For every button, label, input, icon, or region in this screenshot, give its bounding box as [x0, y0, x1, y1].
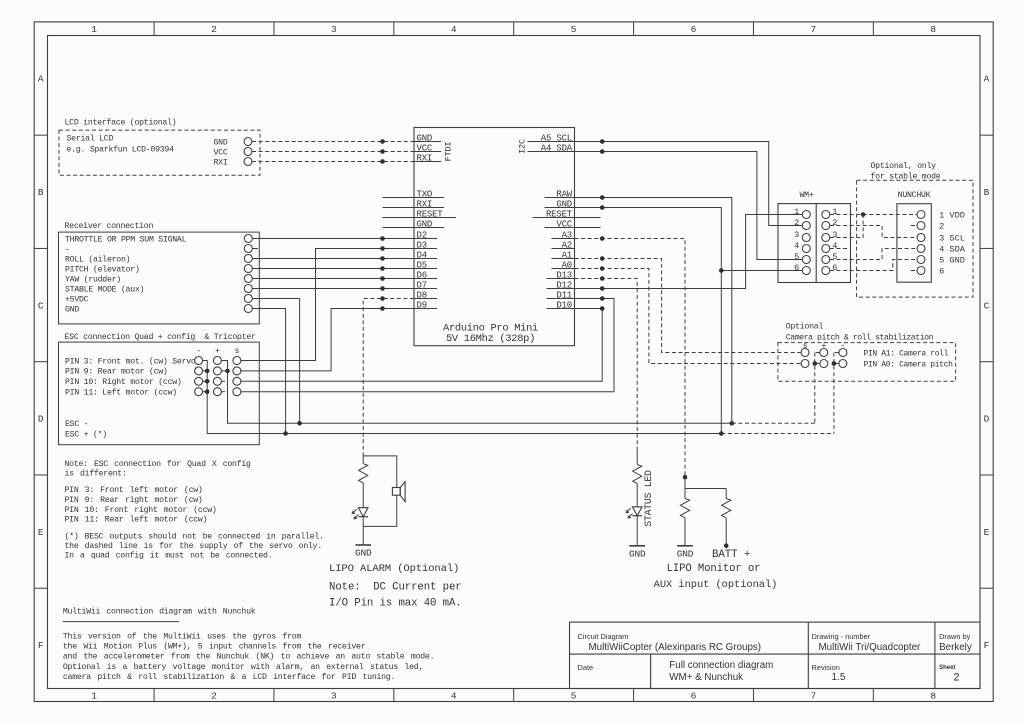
svg-text:A: A [984, 74, 990, 85]
LED D1 STATUS [625, 484, 642, 546]
svg-text:D4: D4 [417, 250, 427, 260]
svg-text:8: 8 [930, 24, 936, 35]
node A3 lipo monitor junction [683, 475, 727, 499]
svg-text:E: E [984, 527, 990, 538]
wire A4 SDA to WM+ pin L5 [575, 149, 803, 259]
svg-text:2: 2 [954, 672, 960, 684]
svg-text:VCC: VCC [417, 143, 433, 153]
speaker LS1 [363, 456, 405, 527]
svg-text:D5: D5 [417, 260, 427, 270]
svg-text:C: C [38, 300, 44, 311]
label lipo monitor [654, 563, 778, 591]
svg-text:Drawn by: Drawn by [939, 632, 971, 641]
svg-text:GND: GND [355, 548, 372, 559]
svg-text:RXI: RXI [214, 158, 228, 167]
svg-text:2: 2 [211, 691, 217, 702]
wire LCD VCC to Arduino VCC (dashed) [252, 149, 414, 154]
wire STABLE MODE to D7 [252, 286, 414, 291]
svg-text:C: C [984, 300, 990, 311]
svg-text:In a quad config it must not b: In a quad config it must not be connecte… [65, 551, 273, 561]
svg-text:FTDI: FTDI [443, 142, 453, 162]
svg-text:GND: GND [629, 548, 646, 559]
svg-text:MultiWii connection diagram wi: MultiWii connection diagram with Nunchuk [63, 606, 256, 616]
wire ESC plus column to ESC- rail [221, 361, 734, 426]
svg-text:Serial LCD: Serial LCD [67, 134, 114, 144]
svg-text:ESC connection Quad + config: ESC connection Quad + config & Tricopter [65, 332, 257, 342]
svg-text:RESET: RESET [417, 209, 444, 219]
wire receiver +5VDC down to ESC minus rail [252, 299, 299, 424]
svg-text:ROLL (aileron): ROLL (aileron) [65, 254, 130, 264]
svg-text:PIN A0: Camera pitch: PIN A0: Camera pitch [864, 361, 954, 370]
svg-text:3 SCL: 3 SCL [939, 234, 965, 244]
svg-text:D13: D13 [556, 270, 572, 280]
svg-text:s: s [235, 347, 240, 356]
svg-text:7: 7 [811, 691, 817, 702]
svg-text:-: - [841, 341, 846, 351]
svg-text:Optional: Optional [786, 322, 824, 332]
title block [570, 622, 981, 688]
svg-text:PIN 9: Rear motor (cw): PIN 9: Rear motor (cw) [65, 367, 168, 377]
svg-text:PIN 10: Right motor (ccw): PIN 10: Right motor (ccw) [65, 377, 182, 387]
svg-text:1: 1 [91, 24, 97, 35]
label STATUS LED [643, 470, 654, 527]
svg-text:5: 5 [571, 691, 577, 702]
svg-text:D12: D12 [556, 280, 572, 290]
svg-text:A: A [38, 74, 44, 85]
LCD serial interface connector J1 [59, 118, 260, 176]
wire THROTTLE to D2 [252, 236, 414, 241]
stub Arduino TXO/RXI/RESET/GND left (n.c.) [383, 198, 415, 228]
camera stabilization optional dashed box [778, 322, 956, 382]
wire YAW to D6 [252, 276, 414, 281]
svg-text:RXI: RXI [417, 153, 433, 163]
svg-text:THROTTLE OR PPM SUM SIGNAL: THROTTLE OR PPM SUM SIGNAL [65, 235, 187, 244]
svg-text:3: 3 [794, 230, 799, 240]
wire Arduino GND to WM+ L6 and ESC+ rail [575, 205, 803, 433]
note text MultiWii description [63, 606, 434, 682]
note text ESC quad X [65, 459, 324, 561]
wire camera - rail to ESC+ rail (dashed) [721, 353, 839, 434]
node BATT+ [712, 543, 750, 561]
svg-text:F: F [38, 640, 44, 651]
wire LCD GND to Arduino GND (dashed) [252, 139, 414, 144]
wire ESC minus column to ESC+ rail [203, 361, 724, 436]
svg-text:ESC + (*): ESC + (*) [65, 430, 107, 440]
svg-text:Drawing - number: Drawing - number [812, 632, 871, 641]
svg-text:6: 6 [691, 24, 697, 35]
wire ESC pin3 servo signal to Arduino D3 [241, 246, 414, 360]
svg-text:NUNCHUK: NUNCHUK [898, 191, 931, 200]
svg-text:5 GND: 5 GND [939, 256, 965, 266]
svg-text:5: 5 [571, 24, 577, 35]
svg-text:LIPO ALARM (Optional): LIPO ALARM (Optional) [329, 563, 459, 575]
wire PITCH to D5 [252, 266, 414, 271]
svg-text:YAW (rudder): YAW (rudder) [65, 274, 121, 284]
wire A3 to LIPO monitor (dashed) [575, 236, 686, 477]
svg-text:1: 1 [91, 691, 97, 702]
wire WM+ R6 to NUNCHUK GND (dashed) [830, 260, 917, 271]
wire A0 to camera pitch servo (dashed) [575, 266, 802, 363]
receiver connector J2 [59, 221, 260, 324]
svg-text:I/O Pin is max 40 mA.: I/O Pin is max 40 mA. [329, 598, 462, 610]
ground lipo monitor [677, 546, 694, 560]
svg-text:1: 1 [794, 207, 799, 217]
svg-text:D: D [38, 414, 44, 425]
svg-text:8: 8 [930, 691, 936, 702]
svg-text:D9: D9 [417, 300, 427, 310]
svg-text:4: 4 [832, 241, 837, 251]
svg-text:+: + [821, 341, 826, 351]
svg-text:A1: A1 [562, 250, 572, 260]
svg-text:GND: GND [417, 133, 433, 143]
svg-text:This version of the MultiWii u: This version of the MultiWii uses the gy… [63, 631, 302, 641]
svg-text:PITCH (elevator): PITCH (elevator) [65, 264, 140, 274]
svg-text:VCC: VCC [214, 148, 228, 157]
svg-text:camera pitch & roll stabilizat: camera pitch & roll stabilization & a LC… [63, 672, 395, 682]
svg-text:Date: Date [578, 663, 594, 672]
wire D12 to WM+ pin L1 [575, 215, 803, 291]
svg-text:F: F [984, 640, 990, 651]
svg-text:RESET: RESET [546, 209, 573, 219]
svg-text:D: D [984, 414, 990, 425]
svg-text:AUX input (optional): AUX input (optional) [654, 579, 778, 591]
svg-text:Note: DC Current per: Note: DC Current per [329, 582, 462, 594]
svg-text:LIPO Monitor or: LIPO Monitor or [667, 563, 761, 575]
svg-text:5: 5 [794, 252, 799, 262]
ground status LED [629, 546, 646, 560]
svg-text:D8: D8 [417, 290, 427, 300]
svg-text:E: E [38, 527, 44, 538]
svg-text:4 SDA: 4 SDA [939, 245, 966, 255]
stub WM+ R4 (n.c.) [830, 248, 848, 250]
svg-text:B: B [984, 187, 990, 198]
svg-text:A2: A2 [562, 240, 572, 250]
svg-text:GND: GND [65, 305, 79, 314]
svg-text:6: 6 [794, 263, 799, 273]
svg-text:PIN 11: Left motor (ccw): PIN 11: Left motor (ccw) [65, 388, 177, 398]
wire A1 to camera roll servo (dashed) [575, 256, 802, 352]
resistor R2 (lipo alarm) [359, 453, 368, 483]
wire WM+ R1 to NUNCHUK VDD (dashed) [830, 212, 917, 217]
svg-text:6: 6 [939, 267, 944, 277]
wire camera + rail to ESC- rail (dashed) [732, 353, 820, 424]
svg-text:4: 4 [794, 241, 799, 251]
svg-text:GND: GND [417, 219, 433, 229]
wire A5 SCL to WM+ pin L2 [575, 139, 803, 225]
svg-text:B: B [38, 187, 44, 198]
svg-text:MultiWiiCopter (Alexinparis RC: MultiWiiCopter (Alexinparis RC Groups) [589, 642, 762, 653]
svg-text:2: 2 [794, 218, 799, 228]
svg-text:A5 SCL: A5 SCL [541, 133, 572, 143]
label lipo alarm [329, 563, 462, 610]
svg-text:+5VDC: +5VDC [65, 295, 89, 304]
svg-text:WM+: WM+ [800, 191, 814, 200]
svg-text:6: 6 [691, 691, 697, 702]
svg-text:(*) BESC outputs should not be: (*) BESC outputs should not be connected… [65, 531, 324, 541]
wire D8 to LIPO alarm (dashed) [363, 296, 414, 453]
wire ROLL to D4 [252, 256, 414, 261]
svg-text:2: 2 [939, 222, 944, 232]
svg-text:PIN 11: Rear left motor (ccw): PIN 11: Rear left motor (ccw) [65, 515, 208, 525]
wire ESC pin11 signal to Arduino D11 [241, 296, 614, 392]
resistor R4 (lipo monitor to BATT+) [722, 499, 731, 546]
svg-text:1.5: 1.5 [832, 672, 846, 683]
svg-text:2: 2 [832, 218, 837, 228]
svg-text:D11: D11 [556, 290, 572, 300]
svg-text:7: 7 [811, 24, 817, 35]
svg-text:STATUS LED: STATUS LED [643, 470, 654, 527]
svg-text:2: 2 [211, 24, 217, 35]
svg-text:-: - [65, 245, 70, 254]
svg-text:and the accelerometer from the: and the accelerometer from the Nunchuk (… [63, 652, 434, 662]
resistor R1 (status LED) [633, 450, 642, 484]
LED D2 (lipo alarm) [351, 483, 368, 545]
ground lipo alarm [355, 545, 372, 559]
ESC connector block J3 [59, 332, 260, 445]
svg-text:the Wii Motion Plus (WM+), 5 i: the Wii Motion Plus (WM+), 5 input chann… [63, 642, 366, 652]
svg-text:+: + [215, 347, 220, 356]
svg-text:e.g. Sparkfun LCD-09394: e.g. Sparkfun LCD-09394 [67, 145, 175, 155]
svg-text:BATT +: BATT + [712, 549, 750, 561]
svg-text:Camera pitch & roll stabilizat: Camera pitch & roll stabilization [786, 333, 934, 343]
svg-text:MultiWii Tri/Quadcopter: MultiWii Tri/Quadcopter [819, 642, 922, 653]
svg-text:Optional, only: Optional, only [871, 161, 937, 171]
svg-text:PIN A1: Camera roll: PIN A1: Camera roll [864, 350, 949, 359]
svg-text:PIN 3: Front mot. (cw) Servo: PIN 3: Front mot. (cw) Servo [65, 356, 196, 366]
WM+ connector J4 [778, 191, 851, 282]
svg-text:LCD interface (optional): LCD interface (optional) [65, 118, 177, 128]
svg-text:3: 3 [331, 691, 337, 702]
svg-text:Note: ESC connection for Quad: Note: ESC connection for Quad X config [65, 459, 252, 469]
svg-text:WM+ & Nunchuk: WM+ & Nunchuk [669, 672, 743, 683]
svg-text:5: 5 [832, 252, 837, 262]
svg-text:5V 16Mhz (328p): 5V 16Mhz (328p) [446, 333, 535, 345]
svg-text:I2C: I2C [517, 139, 527, 154]
svg-text:is different:: is different: [65, 469, 127, 479]
stub ESC plus rows 3-4 (n.c.) [221, 381, 225, 391]
svg-text:Revision: Revision [812, 663, 840, 672]
svg-text:Circuit Diagram: Circuit Diagram [578, 632, 629, 641]
stub NUNCHUK pin2 / pin6 (n.c.) [911, 226, 917, 271]
wire LCD RXI to Arduino RXI (dashed) [252, 159, 414, 164]
svg-text:the dashed line is for the sup: the dashed line is for the supply of the… [65, 541, 323, 551]
junction dots ESC rails from receiver [283, 421, 302, 436]
svg-text:1 VDD: 1 VDD [939, 211, 965, 221]
svg-text:Berkely: Berkely [939, 642, 972, 653]
svg-text:D6: D6 [417, 270, 427, 280]
svg-text:1: 1 [832, 207, 837, 217]
svg-text:D2: D2 [417, 230, 427, 240]
stub receiver pin 2 (n.c.) [252, 248, 258, 250]
NUNCHUK connector J5 [897, 191, 966, 282]
svg-text:GND: GND [214, 138, 228, 147]
svg-text:GND: GND [556, 199, 572, 209]
svg-text:GND: GND [677, 548, 694, 559]
svg-text:D10: D10 [556, 300, 572, 310]
svg-text:PIN 3: Front left motor (cw): PIN 3: Front left motor (cw) [65, 485, 203, 495]
svg-text:Receiver connection: Receiver connection [65, 221, 154, 231]
svg-text:PIN 10: Front right motor (ccw: PIN 10: Front right motor (ccw) [65, 505, 217, 515]
svg-text:ESC -: ESC - [65, 420, 88, 429]
resistor R3 (lipo monitor to GND) [680, 499, 689, 546]
wire RAW to ESC- rail [575, 195, 732, 423]
svg-text:Sheet: Sheet [939, 665, 955, 671]
svg-text:RAW: RAW [556, 189, 572, 199]
svg-text:D7: D7 [417, 280, 427, 290]
svg-text:STABLE MODE (aux): STABLE MODE (aux) [65, 284, 144, 294]
svg-text:VCC: VCC [556, 219, 572, 229]
wire WM+ R3 joins VDD net (dashed) [830, 215, 863, 238]
svg-text:A4 SDA: A4 SDA [541, 143, 573, 153]
svg-text:s: s [803, 341, 808, 351]
wire WM+ R2 to NUNCHUK SCL (dashed) [830, 226, 917, 238]
svg-text:6: 6 [832, 263, 837, 273]
svg-text:A0: A0 [562, 260, 572, 270]
Arduino Pro Mini U1 [414, 128, 575, 346]
wire receiver GND down to ESC plus rail [252, 309, 285, 434]
svg-text:TXO: TXO [417, 189, 433, 199]
svg-text:D3: D3 [417, 240, 427, 250]
wire D13 to status LED (dashed) [575, 276, 638, 449]
svg-text:PIN 9: Rear right motor (cw): PIN 9: Rear right motor (cw) [65, 495, 203, 505]
wire ESC pin10 signal to Arduino D10 [241, 306, 605, 381]
svg-text:3: 3 [331, 24, 337, 35]
svg-text:RXI: RXI [417, 199, 433, 209]
stub Arduino RESET/VCC right (n.c.) [575, 218, 601, 228]
svg-text:-: - [196, 347, 201, 356]
svg-text:3: 3 [832, 230, 837, 240]
svg-text:4: 4 [451, 24, 457, 35]
wire WM+ R5 to NUNCHUK SDA (dashed) [830, 249, 917, 260]
svg-text:A3: A3 [562, 230, 572, 240]
svg-text:Full connection diagram: Full connection diagram [669, 660, 773, 671]
svg-text:Optional is a battery voltage: Optional is a battery voltage monitor wi… [63, 662, 423, 672]
svg-text:4: 4 [451, 691, 457, 702]
stable mode optional dashed box [857, 161, 973, 297]
wire ESC pin9 signal to Arduino D9 [241, 306, 414, 371]
